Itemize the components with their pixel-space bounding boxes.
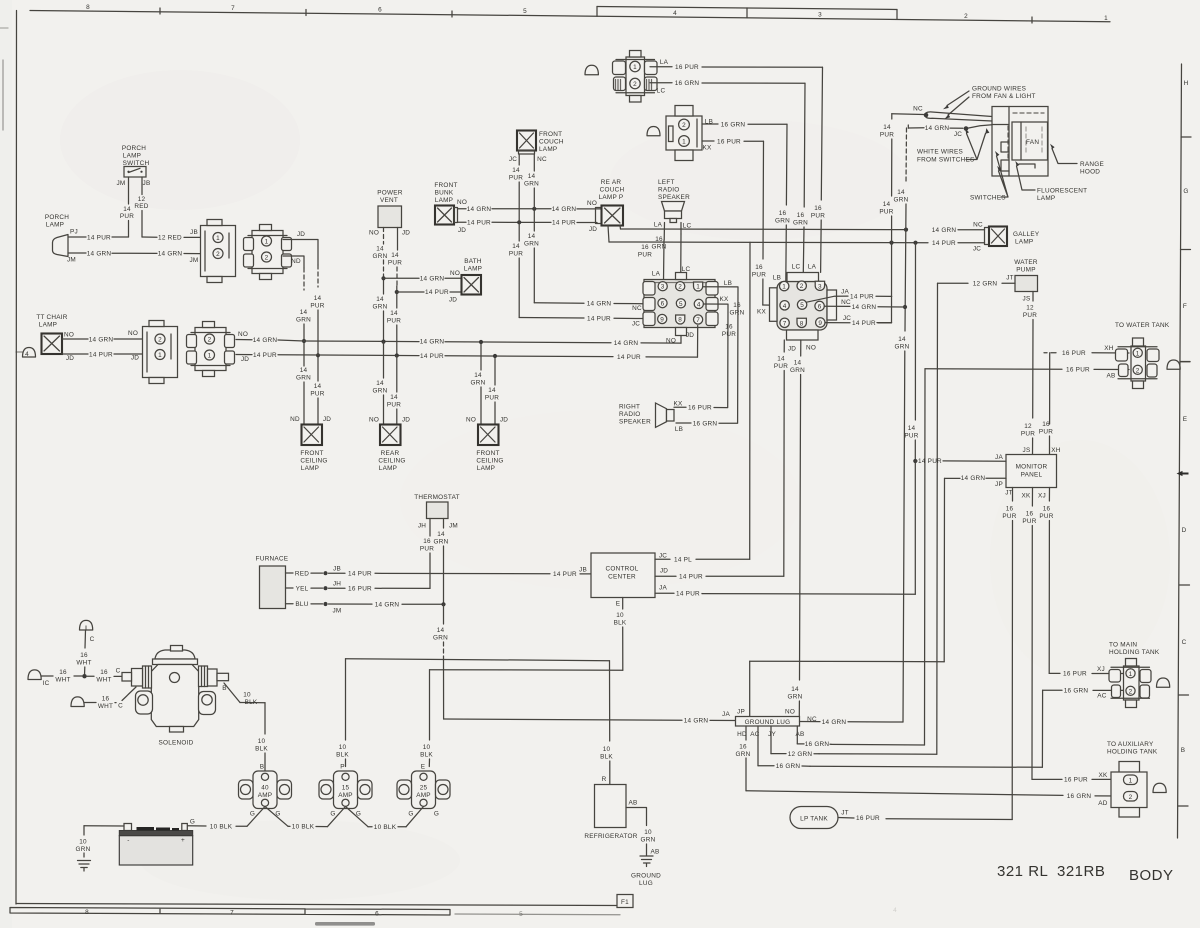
svg-text:FRONT: FRONT (539, 131, 562, 138)
svg-text:14 GRN: 14 GRN (420, 339, 445, 346)
svg-text:LAMP: LAMP (39, 322, 57, 329)
svg-text:15: 15 (342, 785, 350, 792)
pin label JD (449, 297, 457, 304)
FAN label (1026, 139, 1039, 146)
svg-text:PUR: PUR (638, 252, 652, 259)
pin label JH (333, 581, 341, 588)
pin label LC (792, 264, 801, 271)
svg-text:CONTROL: CONTROL (606, 566, 639, 573)
svg-text:4: 4 (893, 907, 897, 914)
pin label JD (323, 416, 331, 423)
pin label JM (332, 608, 341, 615)
svg-text:16 PUR: 16 PUR (1063, 671, 1087, 678)
svg-text:25: 25 (420, 785, 428, 792)
pin label NO (128, 330, 138, 337)
svg-text:2: 2 (633, 81, 637, 88)
pin label JS (1023, 296, 1031, 303)
svg-text:JB: JB (579, 567, 587, 574)
svg-text:LA: LA (654, 222, 663, 229)
svg-text:14 PUR: 14 PUR (253, 352, 277, 359)
svg-text:GALLEY: GALLEY (1013, 231, 1040, 238)
svg-text:JD: JD (66, 355, 74, 362)
svg-text:GRN: GRN (471, 380, 486, 387)
svg-text:14 PL: 14 PL (674, 556, 692, 563)
svg-text:PUR: PUR (1022, 518, 1036, 525)
svg-text:LC: LC (657, 88, 666, 95)
svg-text:LAMP P: LAMP P (599, 194, 624, 201)
svg-text:XH: XH (1051, 447, 1061, 454)
svg-text:GRN: GRN (895, 344, 910, 351)
pin label JC (632, 321, 640, 328)
switches callout (970, 151, 1008, 202)
pin label JP (737, 709, 745, 716)
label 16 PUR LB riser (722, 324, 736, 339)
connector aux holding tank (1111, 762, 1147, 818)
svg-text:10 BLK: 10 BLK (292, 824, 315, 831)
pin label IC (43, 680, 50, 687)
svg-text:14: 14 (794, 360, 802, 367)
wire vertical VF (monitor JP to lug JP) (750, 478, 945, 716)
svg-text:14 GRN: 14 GRN (961, 475, 986, 482)
svg-text:5: 5 (523, 8, 527, 15)
svg-text:FRONT: FRONT (300, 450, 323, 457)
svg-text:16 PUR: 16 PUR (688, 405, 712, 412)
svg-text:14 PUR: 14 PUR (420, 353, 444, 360)
pin label JC (843, 315, 851, 322)
svg-text:6: 6 (818, 304, 822, 311)
wire bath lamp 14 PUR (397, 289, 461, 296)
wire control center JA 14 PUR (655, 590, 702, 597)
svg-text:C: C (116, 668, 121, 675)
pin label JT (841, 810, 849, 817)
svg-text:SPEAKER: SPEAKER (619, 419, 651, 426)
svg-text:COUCH: COUCH (539, 139, 564, 146)
svg-text:D: D (1182, 527, 1187, 534)
solenoid (122, 646, 229, 733)
svg-text:LA: LA (652, 271, 661, 278)
svg-text:PUR: PUR (387, 402, 401, 409)
svg-text:NO: NO (806, 345, 816, 352)
svg-text:16: 16 (797, 212, 805, 219)
pin label NC (973, 222, 983, 229)
ground symbol refrigerator (640, 856, 653, 867)
pin label JD (660, 568, 668, 575)
pin label JB (190, 229, 198, 236)
pin label XJ (1038, 493, 1046, 500)
pin label B (260, 764, 265, 771)
wire bunk-couch 14 GRN (458, 206, 602, 213)
refrigerator label (584, 833, 637, 840)
front couch lamp label (539, 131, 564, 153)
wire bell IC 16 WHT to solenoid (41, 669, 122, 684)
svg-text:JD: JD (500, 417, 508, 424)
pin label LA (808, 264, 817, 271)
svg-text:XJ: XJ (1038, 493, 1046, 500)
wire main bus 14 GRN (236, 337, 681, 347)
pin label JC (659, 553, 667, 560)
svg-text:JC: JC (632, 321, 640, 328)
svg-text:PUR: PUR (509, 175, 523, 182)
svg-text:LUG: LUG (639, 880, 653, 887)
svg-text:14: 14 (300, 367, 308, 374)
svg-text:ND: ND (290, 416, 300, 423)
svg-text:LAMP: LAMP (123, 153, 141, 160)
thermostat (427, 502, 449, 519)
pin label JC (954, 131, 962, 138)
range hood assembly (992, 107, 1048, 177)
junction dot galley GRN (904, 228, 908, 232)
pin label B (222, 685, 227, 692)
svg-text:14 PUR: 14 PUR (553, 571, 577, 578)
pin label KX (673, 401, 683, 408)
ground wires bundle from fan (892, 112, 992, 121)
bath lamp label (464, 258, 482, 273)
pin label JA (841, 289, 849, 296)
pin label NO (785, 709, 795, 716)
svg-text:PUR: PUR (904, 433, 918, 440)
re-ar couch lamp label (599, 179, 625, 201)
svg-text:14: 14 (528, 233, 536, 240)
svg-text:1: 1 (782, 284, 786, 291)
svg-text:7: 7 (230, 910, 234, 917)
lamp porch lamp (53, 235, 69, 257)
svg-text:RE AR: RE AR (601, 179, 622, 186)
svg-text:1: 1 (696, 284, 700, 291)
wire rear ceiling lamp risers (373, 342, 402, 425)
svg-text:14: 14 (314, 383, 322, 390)
wire monitor JA 14 PUR (915, 458, 1006, 465)
svg-text:E: E (1183, 416, 1188, 423)
pin label JT (1006, 275, 1014, 282)
svg-text:C: C (90, 636, 95, 643)
svg-text:LAMP: LAMP (46, 222, 64, 229)
lamp rear couch lamp (596, 206, 624, 226)
svg-text:14 GRN: 14 GRN (587, 301, 612, 308)
sheet connector bell main tank (1157, 678, 1170, 687)
wire battery to fuses 10 BLK (187, 823, 406, 831)
connector P2 right 9-pin (770, 273, 837, 341)
connector P1 left 9-pin (643, 273, 718, 336)
front ceiling lamp 1 label (300, 450, 327, 472)
svg-text:XJ: XJ (1097, 666, 1105, 673)
pin label AD (1098, 800, 1108, 807)
svg-text:2: 2 (800, 283, 804, 290)
pin label NO (238, 331, 248, 338)
wire vertical 14 GRN VA (galley to ground lug) (894, 128, 910, 722)
pin label C (118, 703, 123, 710)
front ceiling lamp 2 label (476, 450, 503, 472)
svg-text:14: 14 (898, 336, 906, 343)
svg-text:14 GRN: 14 GRN (822, 719, 847, 726)
svg-text:1: 1 (216, 235, 220, 242)
svg-text:14: 14 (897, 189, 905, 196)
svg-text:2: 2 (964, 13, 968, 20)
wire bell 16 WHT diagonal to solenoid (85, 687, 137, 710)
wire vertical VD (water tank 16 PUR to lug AB) (831, 369, 925, 745)
junction dot bath GRN (381, 276, 385, 280)
svg-text:GROUND: GROUND (631, 873, 661, 880)
pin label XK (1098, 772, 1108, 779)
svg-text:14: 14 (437, 627, 445, 634)
svg-text:JD: JD (323, 416, 331, 423)
wire vertical VE 12 GRN (pump to lug JY) (819, 283, 938, 754)
wire ground lug NC 14 GRN (800, 719, 904, 726)
pin label JB (579, 567, 587, 574)
water pump unit (1015, 276, 1038, 292)
wire ground lug JY riser 12 GRN (771, 726, 819, 758)
svg-text:JD: JD (458, 227, 466, 234)
svg-text:GRN: GRN (524, 181, 539, 188)
svg-text:PUMP: PUMP (1016, 267, 1035, 274)
wire solenoid B 10 BLK to 40A fuse (224, 683, 268, 773)
svg-text:16: 16 (739, 744, 747, 751)
svg-text:PUR: PUR (388, 260, 402, 267)
pin label NO (369, 230, 379, 237)
svg-text:NO: NO (450, 270, 460, 277)
svg-text:PORCH: PORCH (45, 214, 69, 221)
svg-text:16: 16 (1026, 511, 1034, 518)
svg-text:FLUORESCENT: FLUORESCENT (1037, 188, 1087, 195)
svg-text:10: 10 (423, 744, 431, 751)
svg-text:14 GRN: 14 GRN (253, 337, 278, 344)
pin label LB (773, 275, 781, 282)
svg-text:JP: JP (995, 481, 1003, 488)
svg-text:JD: JD (241, 356, 249, 363)
svg-text:TT CHAIR: TT CHAIR (36, 314, 67, 321)
svg-text:FROM FAN & LIGHT: FROM FAN & LIGHT (972, 93, 1036, 100)
F1 zone box (617, 895, 633, 908)
svg-text:JT: JT (1006, 275, 1014, 282)
pin label JY (768, 731, 776, 738)
svg-text:14: 14 (883, 201, 891, 208)
svg-text:4: 4 (25, 351, 29, 358)
pin label JS (1023, 447, 1031, 454)
water pump label (1014, 259, 1038, 274)
svg-text:6: 6 (378, 7, 382, 14)
svg-text:14 GRN: 14 GRN (925, 125, 950, 132)
svg-text:FURNACE: FURNACE (256, 556, 289, 563)
wire chair lamp 14 GRN (62, 336, 142, 343)
refrigerator box (595, 785, 627, 828)
wire speaker LC riser (652, 223, 681, 282)
connector J4 (4-lobe plug) (187, 322, 235, 377)
svg-text:PUR: PUR (120, 213, 134, 220)
pin label NC (537, 156, 547, 163)
connector main holding tank (4-lobe) (1109, 659, 1151, 708)
svg-text:AMP: AMP (416, 792, 431, 799)
svg-text:16 PUR: 16 PUR (675, 64, 699, 71)
svg-text:14 GRN: 14 GRN (89, 336, 114, 343)
ground lug label (refrigerator) (631, 873, 661, 888)
wire monitor JT riser to LP tank (886, 488, 1017, 820)
svg-text:14 PUR: 14 PUR (552, 220, 576, 227)
svg-text:G: G (1183, 188, 1188, 195)
switch S1 porch lamp switch (124, 167, 146, 178)
wire ground lug HD riser 16 GRN (736, 726, 1063, 795)
svg-text:16: 16 (1042, 421, 1050, 428)
svg-text:14 GRN: 14 GRN (852, 304, 877, 311)
svg-text:JD: JD (788, 346, 796, 353)
pin label NC (841, 299, 851, 306)
svg-text:LB: LB (675, 426, 683, 433)
svg-text:NO: NO (785, 709, 795, 716)
svg-text:BUNK: BUNK (435, 190, 454, 197)
pin label ND (290, 416, 300, 423)
svg-text:KX: KX (702, 145, 712, 152)
pin label KX (757, 309, 767, 316)
svg-text:NO: NO (369, 417, 379, 424)
svg-text:FAN: FAN (1026, 139, 1039, 146)
pin label AB (650, 849, 659, 856)
svg-text:9: 9 (660, 317, 664, 324)
svg-text:14: 14 (512, 167, 520, 174)
svg-text:LAMP: LAMP (435, 197, 453, 204)
svg-text:LP TANK: LP TANK (800, 816, 828, 823)
pin label LB (705, 119, 713, 126)
svg-text:HOLDING TANK: HOLDING TANK (1109, 649, 1160, 656)
svg-text:BLK: BLK (600, 754, 613, 761)
svg-text:NO: NO (64, 332, 74, 339)
svg-text:PORCH: PORCH (122, 145, 146, 152)
svg-text:16: 16 (1006, 506, 1014, 513)
svg-text:PUR: PUR (811, 213, 825, 220)
svg-text:14 GRN: 14 GRN (684, 718, 709, 725)
svg-text:6: 6 (661, 301, 665, 308)
pin label LB (724, 280, 732, 287)
svg-text:PUR: PUR (1039, 429, 1053, 436)
wire 15A fuse legs (328, 807, 369, 827)
svg-text:14: 14 (390, 310, 398, 317)
svg-text:NO: NO (238, 331, 248, 338)
wire main bus 14 PUR (236, 352, 698, 361)
bottom border zone numbers (85, 907, 897, 918)
svg-text:WATER: WATER (1014, 259, 1038, 266)
svg-text:JA: JA (722, 711, 730, 718)
svg-text:WHT: WHT (76, 660, 91, 667)
svg-text:14 PUR: 14 PUR (850, 293, 874, 300)
wire control center JD 14 PUR (655, 573, 784, 580)
svg-text:GROUND LUG: GROUND LUG (745, 719, 791, 726)
porch lamp label (45, 214, 69, 229)
svg-text:BLK: BLK (614, 620, 627, 627)
svg-text:LC: LC (792, 264, 801, 271)
svg-text:GROUND WIRES: GROUND WIRES (972, 86, 1026, 93)
svg-text:GRN: GRN (730, 310, 745, 317)
svg-text:14 PUR: 14 PUR (425, 289, 449, 296)
svg-text:ND: ND (291, 258, 301, 265)
svg-text:16 PUR: 16 PUR (1064, 777, 1088, 784)
svg-text:12: 12 (1024, 423, 1032, 430)
svg-text:AMP: AMP (338, 792, 353, 799)
svg-text:XH: XH (1104, 345, 1114, 352)
svg-text:16: 16 (733, 302, 741, 309)
junction dot bus PUR x495 (493, 354, 497, 358)
pin label JB (143, 180, 151, 187)
porch lamp switch label (122, 145, 150, 167)
svg-text:14: 14 (376, 296, 384, 303)
wire power vent 14 PUR riser (387, 228, 402, 356)
svg-text:NC: NC (973, 222, 983, 229)
svg-text:NC: NC (841, 299, 851, 306)
svg-text:NO: NO (466, 417, 476, 424)
svg-text:IC: IC (43, 680, 50, 687)
svg-text:3: 3 (818, 283, 822, 290)
sheet connector bell aux tank (1153, 783, 1166, 792)
svg-text:XK: XK (1021, 493, 1031, 500)
svg-text:4: 4 (697, 301, 701, 308)
svg-text:JD: JD (402, 417, 410, 424)
svg-text:+: + (181, 837, 185, 844)
svg-text:AB: AB (650, 849, 659, 856)
svg-text:14 PUR: 14 PUR (932, 240, 956, 247)
svg-text:16: 16 (102, 696, 110, 703)
svg-text:WHT: WHT (98, 703, 113, 710)
svg-text:REAR: REAR (381, 450, 400, 457)
wire JM riser 14 PUR (120, 177, 134, 237)
svg-text:16: 16 (59, 669, 67, 676)
svg-text:JD: JD (589, 226, 597, 233)
pin label LA (652, 271, 661, 278)
svg-text:H: H (1184, 80, 1189, 87)
svg-text:VENT: VENT (380, 197, 398, 204)
svg-text:8: 8 (86, 4, 90, 11)
pin label LA (654, 222, 663, 229)
lamp front ceiling lamp 2 (478, 425, 499, 446)
pin label JT (1005, 490, 1013, 497)
svg-text:NC: NC (913, 106, 923, 113)
wire ground lug AC riser 16 GRN (758, 726, 810, 770)
svg-text:10: 10 (644, 829, 652, 836)
svg-text:PUR: PUR (1023, 312, 1037, 319)
svg-text:14: 14 (376, 380, 384, 387)
svg-text:GRN: GRN (652, 244, 667, 251)
wire connector J2 to front ceiling lamp 14 GRN (283, 256, 311, 425)
pin label NO (666, 338, 676, 345)
bottom border line (10, 904, 620, 916)
svg-text:3: 3 (661, 284, 665, 291)
left border line (0, 11, 17, 905)
svg-text:POWER: POWER (377, 190, 403, 197)
wire LP tank 16 PUR (838, 815, 880, 822)
thermostat label (414, 494, 460, 501)
svg-text:16: 16 (655, 236, 663, 243)
svg-text:PUR: PUR (310, 391, 324, 398)
svg-text:14: 14 (391, 252, 399, 259)
svg-text:14 GRN: 14 GRN (932, 227, 957, 234)
svg-text:CEILING: CEILING (476, 458, 503, 465)
svg-text:-: - (127, 837, 129, 844)
wire connector J2 to front ceiling lamp 14 PUR (283, 240, 325, 425)
svg-text:LEFT: LEFT (658, 179, 675, 186)
pin label AC (1097, 693, 1107, 700)
svg-text:B: B (1181, 747, 1186, 754)
wire JB riser 12 RED (134, 177, 148, 237)
ground symbol battery (78, 861, 91, 872)
pin label JD (402, 417, 410, 424)
svg-text:14 PUR: 14 PUR (918, 458, 942, 465)
svg-text:GRN: GRN (373, 253, 388, 260)
svg-text:2: 2 (678, 284, 682, 291)
pin label NO (369, 417, 379, 424)
svg-text:5: 5 (519, 911, 523, 918)
sheet connector bell water tank (1167, 360, 1190, 369)
svg-text:14 GRN: 14 GRN (614, 340, 639, 347)
svg-text:14: 14 (474, 372, 482, 379)
fuse F15 15 AMP (319, 771, 372, 809)
svg-text:LAMP: LAMP (379, 465, 397, 472)
pin label G (190, 819, 195, 826)
junction dot couch GRN (532, 207, 536, 211)
